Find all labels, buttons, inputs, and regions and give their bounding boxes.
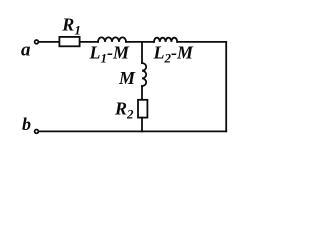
terminal b [35,130,39,134]
svg-text:a: a [21,40,31,61]
wire R1 to L1-M [80,41,98,43]
wire node to M [141,42,143,63]
inductor L2-M [154,38,177,42]
wire M to R2 [141,86,143,99]
svg-text:b: b [22,114,31,134]
resistor R1 [59,37,79,46]
svg-text:L2-M: L2-M [153,43,194,66]
svg-text:L1-M: L1-M [89,43,130,66]
wire a to R1 [39,41,59,43]
wire L2-M to right corner [177,41,226,43]
right rail wire [225,42,227,131]
inductor L1-M [98,37,126,42]
inductor M [142,63,146,86]
svg-text:R1: R1 [61,15,81,38]
wire R2 to bottom rail [141,118,143,132]
terminal a [35,40,39,44]
svg-text:R2: R2 [114,99,134,122]
svg-text:M: M [118,68,136,88]
wire L1-M to L2-M through node [126,41,154,43]
resistor R2 [138,100,147,118]
bottom rail wire [39,130,226,132]
